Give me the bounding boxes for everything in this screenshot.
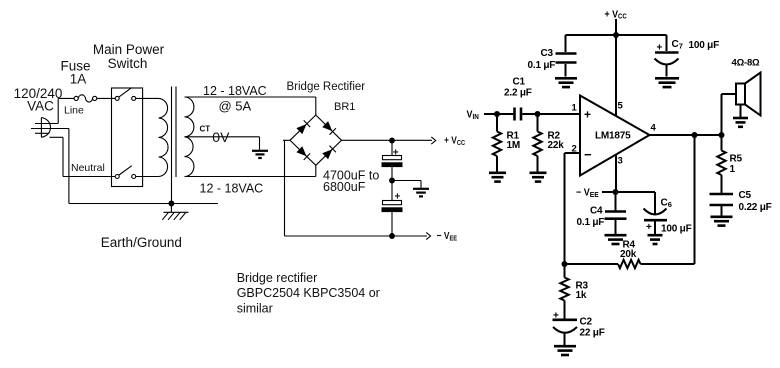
svg-text:1k: 1k — [576, 290, 587, 301]
svg-text:C3: C3 — [541, 48, 554, 59]
svg-text:+: + — [657, 43, 663, 54]
svg-text:+ VCC: + VCC — [444, 135, 465, 147]
svg-text:12 - 18VAC: 12 - 18VAC — [203, 84, 267, 98]
svg-text:− VEE: − VEE — [576, 187, 599, 199]
svg-text:6800uF: 6800uF — [323, 180, 366, 194]
svg-text:−: − — [584, 147, 592, 162]
svg-text:Bridge rectifier: Bridge rectifier — [237, 271, 318, 285]
svg-text:Earth/Ground: Earth/Ground — [101, 235, 182, 250]
svg-text:C5: C5 — [739, 190, 752, 201]
svg-text:GBPC2504 KBPC3504 or: GBPC2504 KBPC3504 or — [237, 286, 380, 300]
svg-text:C6: C6 — [661, 198, 672, 210]
svg-text:1: 1 — [572, 103, 578, 114]
svg-text:1M: 1M — [507, 140, 521, 151]
svg-text:22k: 22k — [548, 140, 565, 151]
svg-text:+: + — [395, 191, 401, 202]
svg-text:4Ω-8Ω: 4Ω-8Ω — [732, 58, 761, 69]
svg-text:Line: Line — [64, 104, 84, 116]
svg-text:0.1 μF: 0.1 μF — [528, 60, 556, 71]
svg-text:1: 1 — [730, 164, 736, 175]
svg-text:similar: similar — [237, 302, 273, 316]
svg-text:− VEE: − VEE — [437, 230, 458, 242]
svg-text:R5: R5 — [730, 154, 743, 165]
svg-text:2: 2 — [572, 144, 577, 155]
svg-text:12 - 18VAC: 12 - 18VAC — [200, 182, 264, 196]
svg-text:C4: C4 — [590, 206, 603, 217]
svg-text:VIN: VIN — [467, 109, 479, 121]
svg-text:CT: CT — [200, 124, 211, 133]
svg-text:Bridge Rectifier: Bridge Rectifier — [287, 81, 366, 93]
svg-text:C2: C2 — [580, 317, 593, 328]
svg-text:4: 4 — [651, 122, 657, 133]
svg-text:@ 5A: @ 5A — [219, 99, 252, 114]
svg-text:0.22 μF: 0.22 μF — [739, 202, 772, 213]
svg-text:BR1: BR1 — [334, 101, 355, 113]
svg-text:0.1 μF: 0.1 μF — [577, 217, 605, 228]
svg-text:+: + — [393, 148, 399, 159]
svg-text:C1: C1 — [513, 77, 526, 88]
svg-text:3: 3 — [618, 156, 623, 167]
svg-text:LM1875: LM1875 — [595, 130, 631, 141]
svg-text:Neutral: Neutral — [71, 162, 105, 174]
svg-text:22 μF: 22 μF — [580, 328, 605, 339]
svg-text:Switch: Switch — [108, 56, 148, 71]
svg-text:C7: C7 — [672, 39, 683, 51]
svg-text:1A: 1A — [70, 72, 87, 87]
svg-text:+: + — [584, 108, 591, 122]
svg-text:100 μF: 100 μF — [689, 40, 720, 51]
svg-text:Main Power: Main Power — [93, 42, 165, 57]
svg-text:2.2 μF: 2.2 μF — [504, 88, 532, 99]
svg-text:+: + — [646, 222, 652, 233]
svg-text:5: 5 — [618, 101, 624, 112]
svg-text:0V: 0V — [212, 129, 230, 145]
svg-text:100 μF: 100 μF — [661, 224, 692, 235]
svg-text:VAC: VAC — [27, 99, 54, 114]
svg-text:+ VCC: + VCC — [605, 9, 627, 21]
svg-text:20k: 20k — [620, 249, 637, 260]
svg-text:+: + — [553, 311, 559, 322]
